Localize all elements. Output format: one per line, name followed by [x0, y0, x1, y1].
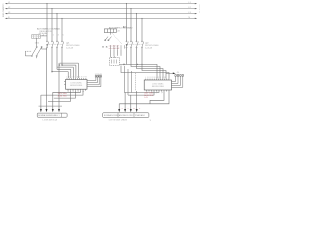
- node taps group 2: [126, 3, 143, 19]
- wire aux b: [57, 67, 73, 78]
- svg-text:2,2-3,2A: 2,2-3,2A: [66, 46, 74, 49]
- wire Q1 pole1 down: [46, 48, 48, 110]
- node pole2: [51, 71, 52, 72]
- wire pole2 to K1: [52, 48, 68, 78]
- mains note circuit 1: [58, 93, 68, 97]
- load label bomba 1: [37, 113, 67, 117]
- wire aux a: [59, 63, 78, 78]
- wire neutral feed down: [58, 63, 60, 110]
- svg-text:SONDAS: SONDAS: [95, 73, 103, 76]
- S2 linkage: [112, 33, 122, 44]
- K2 right pins: [172, 82, 174, 86]
- wire Q2 pole1 to K2: [127, 48, 158, 79]
- node aux: [59, 65, 60, 66]
- wire pole3 to K1: [57, 48, 71, 78]
- svg-text:N: N: [69, 77, 70, 79]
- connector box: [110, 58, 120, 66]
- svg-text:1: 1: [53, 35, 54, 37]
- node connector: [123, 64, 124, 65]
- svg-text:N: N: [147, 77, 148, 79]
- K1 top pin numbers: [66, 77, 86, 79]
- S2 contacts: [105, 33, 112, 41]
- bus line L2: [7, 8, 196, 10]
- wire drop L2 to Q1: [51, 9, 53, 41]
- load label bomba 2: [103, 113, 149, 118]
- wires K1 to X2: [87, 77, 101, 87]
- wire X1 to L1 drop: [41, 35, 48, 36]
- svg-text:6ED1052-1FB00: 6ED1052-1FB00: [70, 85, 82, 87]
- Q1 label: [66, 43, 80, 50]
- svg-text:n: n: [139, 108, 140, 110]
- ladder wire a: [124, 66, 126, 93]
- K1 bottom pins: [68, 89, 86, 91]
- contact row marks: [102, 45, 124, 50]
- wire drop L1 to Q2: [126, 4, 128, 41]
- bus line L1: [7, 3, 196, 5]
- node taps group 1: [46, 3, 62, 19]
- ladder wire b: [127, 69, 129, 95]
- S2 tap symbol: [124, 26, 127, 28]
- svg-text:Q4: Q4: [161, 92, 163, 94]
- switch S1 contact: [31, 38, 47, 56]
- svg-text:13 14: 13 14: [35, 43, 40, 45]
- wire drop N to Q2: [141, 18, 143, 41]
- svg-text:ALIM. RED: ALIM. RED: [58, 94, 68, 97]
- node poleN: [61, 65, 62, 66]
- svg-text:I8: I8: [164, 77, 165, 79]
- bus arrows left: [5, 3, 7, 19]
- heading text circuit 1: [37, 27, 61, 32]
- wire drop L2 to Q2: [130, 9, 132, 41]
- svg-text:Q3: Q3: [156, 92, 158, 94]
- probe terminals X3: [175, 75, 184, 77]
- wire drop L1 to Q1: [46, 4, 48, 41]
- bus arrows right: [195, 3, 197, 19]
- S1 wire junction arrow: [46, 44, 48, 46]
- wire Q2 pole3 to K2: [137, 48, 164, 79]
- bus labels right: [189, 2, 192, 19]
- wire Q2 poleN to K2: [142, 48, 166, 79]
- wire aux feed K2: [121, 66, 169, 79]
- svg-text:SIGUE 03: SIGUE 03: [199, 4, 200, 14]
- K1 text: [70, 83, 82, 87]
- K2 top pin numbers: [145, 77, 165, 79]
- K1 top pins: [67, 78, 86, 80]
- svg-text:LOGO 230RC: LOGO 230RC: [71, 83, 83, 85]
- controller K1: [66, 80, 88, 90]
- ladder wire d dashed: [135, 73, 137, 91]
- probe terminals X2: [95, 76, 101, 77]
- out arrow label: [166, 72, 174, 74]
- bus line L3: [7, 13, 196, 15]
- Q2 linkage: [127, 43, 143, 45]
- out arrow head: [173, 73, 176, 75]
- circuit breaker Q1: [46, 41, 63, 48]
- wire drop N to Q1: [61, 18, 63, 41]
- float switch wires: [111, 50, 122, 58]
- svg-text:-X4: -X4: [177, 72, 180, 74]
- wires K2 to X3: [172, 76, 183, 87]
- S1 left feeds: [25, 51, 36, 58]
- terminal block X1: [32, 35, 41, 38]
- Q1 linkage: [48, 43, 63, 45]
- svg-text:LOGO 230RC: LOGO 230RC: [152, 83, 164, 85]
- svg-text:BOMBA DOSIFICADORA CLORO 2: BOMBA DOSIFICADORA CLORO 2: [104, 114, 134, 117]
- cable W2 arrows: [118, 109, 138, 112]
- K2 text: [152, 83, 164, 87]
- cable W1 arrows: [40, 109, 60, 112]
- K1 right pins: [87, 81, 89, 85]
- bomba 2 dividers: [118, 113, 134, 118]
- svg-text:0,37 kW 230V 1,9A B3: 0,37 kW 230V 1,9A B3: [109, 119, 127, 122]
- ladder wire c: [131, 71, 133, 93]
- K2 bottom pins: [147, 90, 170, 92]
- connector box marks: [112, 60, 117, 64]
- svg-text:6ED1052-1FB00: 6ED1052-1FB00: [152, 86, 164, 88]
- svg-text:2,2-3,2A: 2,2-3,2A: [145, 46, 153, 49]
- junction dots feed: [137, 64, 143, 65]
- K2 top pins: [146, 79, 169, 80]
- svg-text:Q4: Q4: [82, 91, 84, 93]
- svg-text:AUTOMATICO BOMBA 2: AUTOMATICO BOMBA 2: [109, 27, 133, 30]
- bus line N: [7, 17, 196, 19]
- wire connector to bus: [120, 63, 127, 65]
- wire Q2 pole2 to K2: [131, 48, 160, 79]
- selector contact row: [109, 45, 119, 50]
- S2 wire junction arrow: [126, 44, 128, 46]
- svg-text:BOMBA SUMERGIBLE 1: BOMBA SUMERGIBLE 1: [38, 114, 59, 117]
- selector block S2: [104, 29, 116, 33]
- K1 left pins: [64, 81, 66, 84]
- svg-text:1,5 kW 400V 3,5A: 1,5 kW 400V 3,5A: [42, 118, 57, 121]
- circuit breaker Q2: [126, 41, 144, 48]
- wire nums: [53, 35, 64, 37]
- svg-text:CUADRO GEN: CUADRO GEN: [2, 4, 5, 18]
- wire poleN to K1: [62, 48, 76, 78]
- drop wires to arrows: [119, 91, 137, 110]
- controller K2: [144, 80, 171, 90]
- Q2 label: [145, 43, 159, 50]
- K2 bottom pin numbers: [146, 92, 163, 94]
- svg-text:5: 5: [63, 35, 64, 37]
- svg-text:-S1 H-0-A: -S1 H-0-A: [39, 32, 48, 35]
- svg-text:I8: I8: [85, 77, 86, 79]
- svg-text:3: 3: [58, 35, 59, 37]
- terminal block X1 pins: [32, 36, 40, 38]
- cable W1: [39, 105, 63, 107]
- wire drop L3 to Q1: [56, 14, 58, 41]
- svg-text:-S2: -S2: [117, 30, 120, 32]
- wire marks red: [122, 108, 140, 110]
- svg-text:P.VACIADO: P.VACIADO: [135, 114, 145, 117]
- mains note circuit 2: [144, 93, 154, 99]
- bus labels left: [8, 2, 11, 19]
- wire drop L3 to Q2: [136, 14, 138, 41]
- K1 output loop wires: [41, 91, 83, 110]
- svg-text:u: u: [122, 108, 123, 110]
- bomba 1 divider: [61, 113, 63, 117]
- K2 output loop wires: [119, 92, 169, 104]
- K1 bottom pin numbers: [67, 91, 84, 93]
